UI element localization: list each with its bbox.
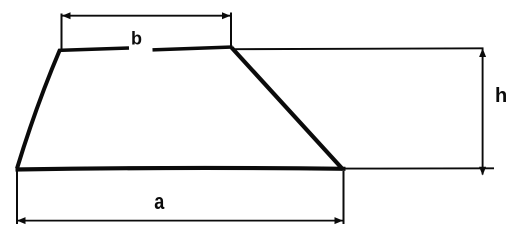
h dimension bottom arrowhead: [479, 167, 486, 176]
trapezoid right slanted side: [232, 48, 344, 170]
b dimension: right extension line: [230, 13, 232, 48]
h dimension: bottom extension line: [345, 167, 494, 169]
b dimension right arrowhead: [222, 12, 231, 19]
trapezoid top edge (side b), left segment: [59, 48, 130, 50]
h dimension: top extension line: [232, 47, 484, 50]
trapezoid bottom edge (side a): [16, 168, 346, 170]
h dimension line: [482, 49, 484, 175]
a dimension: right extension line: [343, 171, 345, 224]
a dimension line: [17, 220, 343, 222]
svg-text:b: b: [131, 29, 142, 49]
svg-text:a: a: [154, 190, 165, 214]
trapezoid left slanted side: [17, 50, 60, 169]
h dimension top arrowhead: [479, 48, 486, 57]
trapezoid top edge (side b), right segment: [153, 47, 233, 50]
svg-text:h: h: [495, 85, 507, 107]
a dimension: left extension line: [16, 171, 18, 224]
b dimension left arrowhead: [62, 12, 71, 19]
a dimension right arrowhead: [335, 217, 344, 224]
b dimension line: [62, 15, 230, 17]
a dimension left arrowhead: [17, 217, 26, 224]
b dimension: left extension line: [61, 14, 63, 51]
